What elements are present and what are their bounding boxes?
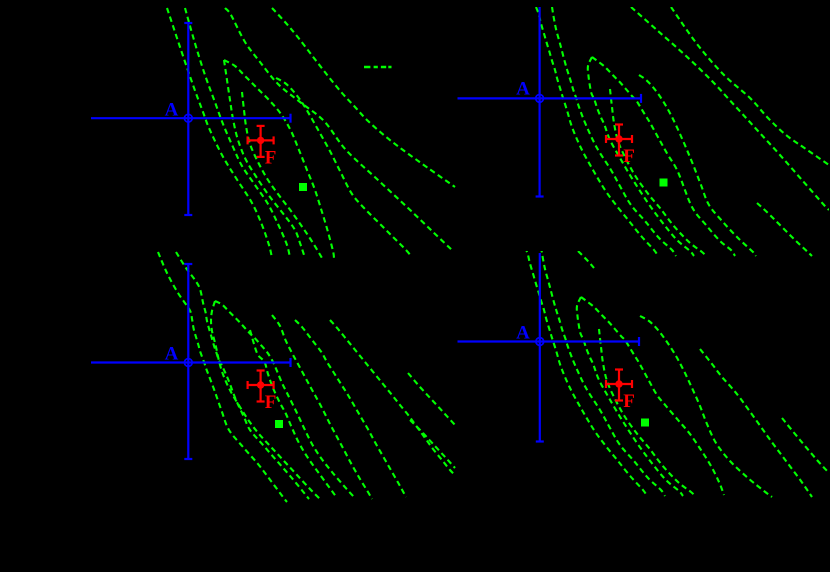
contour top-right c4: [592, 57, 735, 256]
contour bottom-left c3: [211, 301, 320, 499]
green square marker (bottom-right): [641, 419, 649, 427]
contour top-right c5: [610, 89, 706, 256]
contour bottom-left c8: [330, 320, 455, 475]
contour top-right c9: [757, 203, 812, 256]
contour top-right c1: [536, 7, 658, 256]
contour bottom-right c3: [577, 297, 683, 496]
contour bottom-left c1: [158, 252, 287, 502]
contour bottom-right c2: [541, 247, 665, 496]
contour bottom-right c4: [581, 297, 724, 495]
contour top-left c8: [272, 8, 455, 187]
contour top-left c6: [276, 78, 411, 256]
contour top-left c5: [242, 92, 322, 258]
contour top-left c1: [167, 8, 272, 258]
svg-text:F: F: [623, 146, 635, 167]
contour bottom-left c9: [408, 373, 455, 425]
contour bottom-right c8: [782, 418, 829, 473]
green square marker (top-right): [660, 179, 668, 187]
point A (top-left): blue error bars: [91, 23, 291, 215]
contour bottom-left c10: [410, 420, 455, 468]
contour bottom-right c1: [525, 247, 647, 496]
contour bottom-right c5: [599, 329, 695, 496]
contour top-left c4: [224, 60, 334, 258]
point F (bottom-right): red error bars: [606, 370, 632, 401]
svg-text:A: A: [516, 79, 530, 100]
svg-text:F: F: [623, 391, 635, 412]
contour bottom-left c4: [215, 301, 354, 497]
svg-text:A: A: [165, 344, 179, 365]
point A (bottom-right): blue error bars: [458, 253, 640, 442]
contour top-left c2: [185, 8, 290, 258]
contour bottom-right c6: [640, 316, 772, 497]
contour bottom-right c9: [578, 251, 594, 268]
contour top-left c3: [224, 60, 305, 258]
contour bottom-left c5: [250, 330, 337, 498]
point F (bottom-left): red error bars: [248, 371, 274, 402]
svg-text:A: A: [165, 100, 179, 121]
legend dashed-line sample: [364, 66, 392, 68]
svg-text:F: F: [265, 148, 277, 169]
contour top-right c8: [671, 7, 829, 165]
point A (bottom-left): blue error bars: [91, 264, 291, 459]
green square marker (top-left): [299, 183, 307, 191]
contour bottom-right c7: [700, 349, 812, 497]
contour bottom-left c6: [272, 315, 372, 499]
contour top-right c6: [639, 75, 756, 256]
contour bottom-left c7: [295, 320, 406, 497]
point F (top-right): red error bars: [606, 125, 632, 156]
contour top-left c7: [225, 8, 453, 251]
point F (top-left): red error bars: [248, 126, 274, 157]
contour top-right c7: [631, 7, 829, 210]
point A (top-right): blue error bars: [458, 7, 642, 197]
contour top-right c3: [588, 57, 694, 256]
contour bottom-left c2: [176, 252, 309, 499]
svg-text:A: A: [516, 323, 530, 344]
green square marker (bottom-left): [275, 420, 283, 428]
contour top-right c2: [552, 7, 676, 256]
svg-text:F: F: [265, 392, 277, 413]
